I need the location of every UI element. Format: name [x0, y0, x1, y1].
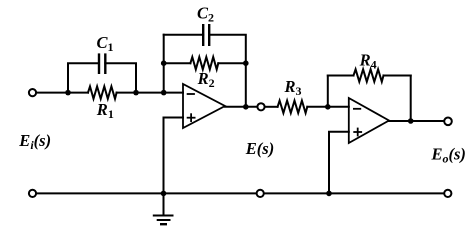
op-amp U2 plus sign [354, 131, 361, 133]
wire U2 output [389, 120, 443, 122]
node D junction (R2 left) [161, 60, 167, 66]
resistor R4 [328, 75, 354, 77]
resistor R3 [265, 106, 277, 108]
node C junction (feedback tap) [161, 90, 167, 96]
svg-text:E(s): E(s) [245, 139, 274, 158]
op-amp U1 [183, 84, 225, 128]
resistor R1 [68, 92, 88, 94]
wire input to node A [37, 92, 68, 94]
wire U1 noninverting input to ground rail [164, 118, 184, 194]
node F junction (U1 output / feedback) [243, 104, 249, 110]
wire R4 right riser [410, 76, 412, 122]
op-amp U2 [349, 98, 389, 143]
resistor R2 [164, 62, 191, 64]
op-amp U2 minus sign [354, 108, 360, 110]
capacitor C1 branch left wire [68, 63, 99, 92]
node I junction (ground tap) [161, 191, 167, 197]
bottom rail terminal middle [257, 190, 264, 197]
capacitor C2 branch left wire [164, 34, 204, 36]
svg-text:C1: C1 [97, 33, 114, 54]
output terminal Eo [444, 118, 452, 126]
wire U1 output [225, 106, 257, 108]
svg-text:C2: C2 [197, 4, 214, 25]
node A junction [65, 90, 71, 96]
svg-text:Ei(s): Ei(s) [18, 131, 51, 152]
capacitor C2 [202, 25, 204, 45]
op-amp U1 plus sign [188, 117, 195, 119]
bottom rail terminal right [444, 190, 451, 197]
ground [163, 193, 165, 215]
svg-text:R1: R1 [96, 100, 114, 121]
wire node B to op-amp U1 inverting input [136, 92, 183, 94]
svg-text:R4: R4 [359, 51, 377, 72]
capacitor C1 [98, 55, 100, 73]
node E junction (R2 right) [243, 60, 249, 66]
input terminal Ei [29, 89, 36, 96]
wire U2 noninverting input to ground rail [329, 132, 349, 194]
svg-text:R2: R2 [197, 69, 215, 90]
node J junction (U2 plus to rail) [326, 191, 332, 197]
wire bottom rail left segment [37, 192, 256, 194]
svg-text:Eo(s): Eo(s) [431, 145, 466, 166]
wire feedback left riser [163, 35, 165, 93]
bottom rail terminal left [29, 190, 36, 197]
node E(s) terminal [257, 103, 264, 110]
wire bottom rail right segment [265, 192, 444, 194]
op-amp U1 minus sign [188, 93, 194, 95]
node G junction (R3 right / R4 tap) [325, 104, 331, 110]
svg-text:R3: R3 [284, 77, 302, 98]
node H junction (U2 output / feedback) [408, 118, 414, 124]
node B junction [133, 90, 139, 96]
wire R4 left riser [327, 76, 329, 107]
capacitor C2 branch right wire [209, 35, 246, 107]
capacitor C1 branch right wire [105, 63, 136, 92]
